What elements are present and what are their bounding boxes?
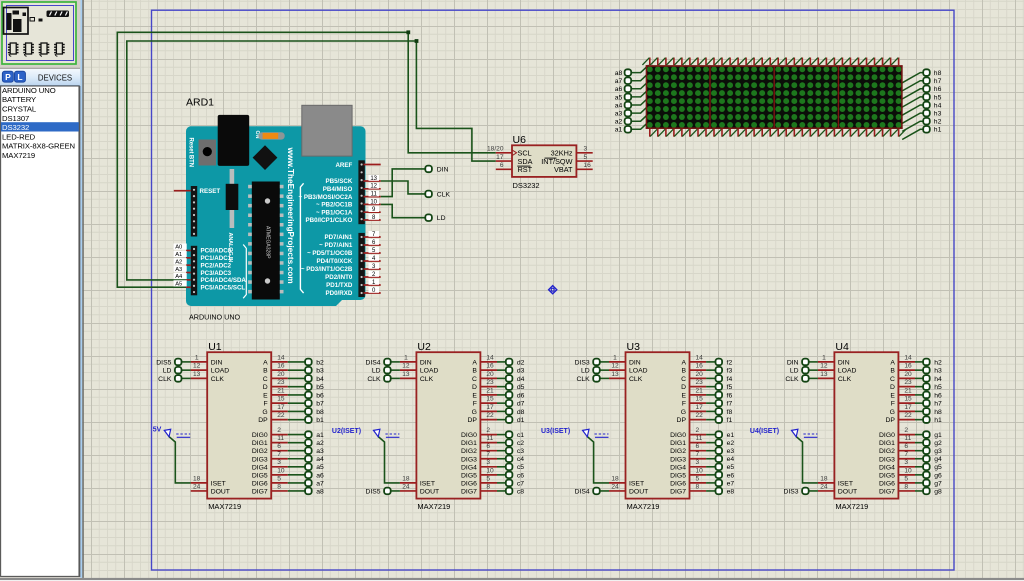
svg-text:h8: h8 [934, 70, 942, 77]
svg-text:e1: e1 [727, 432, 735, 439]
svg-text:7: 7 [277, 451, 281, 458]
svg-text:DIG2: DIG2 [879, 448, 895, 455]
svg-text:MAX7219: MAX7219 [417, 502, 450, 511]
svg-text:DIS3: DIS3 [783, 488, 798, 495]
svg-text:DIG6: DIG6 [879, 480, 895, 487]
svg-text:h6: h6 [934, 392, 942, 399]
svg-text:b4: b4 [316, 376, 324, 383]
svg-text:a2: a2 [615, 119, 623, 126]
svg-text:11: 11 [486, 435, 493, 442]
svg-text:5: 5 [277, 475, 281, 482]
svg-text:b5: b5 [316, 384, 324, 391]
svg-text:23: 23 [696, 379, 704, 386]
svg-text:23: 23 [904, 379, 912, 386]
svg-text:LD: LD [163, 368, 172, 375]
svg-text:DIG6: DIG6 [670, 480, 686, 487]
svg-text:ARDUINO UNO: ARDUINO UNO [2, 86, 56, 95]
svg-text:D: D [472, 384, 477, 391]
svg-text:11: 11 [904, 435, 911, 442]
svg-text:DIS5: DIS5 [365, 488, 380, 495]
svg-text:MAX7219: MAX7219 [2, 151, 35, 160]
svg-text:c2: c2 [517, 440, 524, 447]
svg-text:16: 16 [904, 363, 912, 370]
svg-text:22: 22 [277, 412, 285, 419]
svg-text:a1: a1 [316, 432, 324, 439]
svg-text:b1: b1 [316, 417, 324, 424]
svg-text:10: 10 [370, 199, 377, 205]
svg-text:8: 8 [696, 483, 700, 490]
svg-text:f1: f1 [727, 417, 733, 424]
svg-text:LD: LD [437, 215, 446, 222]
svg-text:h8: h8 [934, 409, 942, 416]
svg-text:17: 17 [486, 404, 494, 411]
svg-text:e3: e3 [727, 448, 735, 455]
svg-text:f4: f4 [727, 376, 733, 383]
svg-text:DEVICES: DEVICES [38, 74, 72, 83]
svg-text:2: 2 [696, 427, 700, 434]
svg-text:DIG6: DIG6 [252, 480, 268, 487]
svg-text:h5: h5 [934, 384, 942, 391]
svg-text:E: E [263, 392, 268, 399]
svg-text:DIG1: DIG1 [461, 440, 477, 447]
svg-text:DIS3: DIS3 [575, 359, 590, 366]
svg-text:15: 15 [277, 396, 285, 403]
svg-text:h1: h1 [934, 127, 942, 134]
svg-text:A5: A5 [175, 281, 182, 287]
svg-text:3: 3 [696, 459, 700, 466]
svg-text:b8: b8 [316, 409, 324, 416]
svg-text:a6: a6 [316, 472, 324, 479]
svg-text:MAX7219: MAX7219 [627, 502, 660, 511]
svg-text:DIG2: DIG2 [252, 448, 268, 455]
svg-text:h4: h4 [934, 102, 942, 109]
svg-text:6: 6 [500, 162, 504, 169]
svg-text:7: 7 [696, 451, 700, 458]
svg-text:a3: a3 [316, 448, 324, 455]
svg-text:DIG3: DIG3 [461, 456, 477, 463]
svg-text:20: 20 [486, 371, 494, 378]
svg-text:d3: d3 [517, 368, 525, 375]
svg-text:PD0/RXD: PD0/RXD [325, 290, 352, 297]
svg-text:16: 16 [277, 363, 285, 370]
svg-text:h3: h3 [934, 368, 942, 375]
svg-text:d7: d7 [517, 401, 525, 408]
svg-text:C: C [472, 376, 477, 383]
svg-text:DIG7: DIG7 [670, 488, 686, 495]
svg-text:17: 17 [496, 154, 504, 161]
svg-text:LOAD: LOAD [629, 368, 648, 375]
svg-text:A0: A0 [175, 245, 182, 251]
svg-text:e7: e7 [727, 480, 735, 487]
svg-text:DS1307: DS1307 [2, 114, 29, 123]
svg-text:a4: a4 [316, 456, 324, 463]
svg-text:2: 2 [486, 427, 490, 434]
svg-text:DIN: DIN [211, 359, 223, 366]
svg-text:f5: f5 [727, 384, 733, 391]
svg-text:18: 18 [820, 475, 828, 482]
svg-text:16: 16 [486, 363, 494, 370]
svg-text:BATTERY: BATTERY [2, 95, 36, 104]
svg-text:DIG0: DIG0 [461, 432, 477, 439]
svg-text:PC4/ADC4/SDA: PC4/ADC4/SDA [201, 277, 247, 284]
svg-text:13: 13 [402, 371, 410, 378]
svg-text:21: 21 [904, 387, 912, 394]
svg-text:U3(ISET): U3(ISET) [541, 428, 570, 435]
svg-text:18: 18 [611, 475, 619, 482]
svg-text:DIG0: DIG0 [670, 432, 686, 439]
svg-text:20: 20 [904, 371, 912, 378]
svg-text:DIG4: DIG4 [252, 464, 268, 471]
svg-text:6: 6 [486, 443, 490, 450]
svg-text:7: 7 [486, 451, 490, 458]
svg-text:f2: f2 [727, 359, 733, 366]
svg-text:Reset BTN: Reset BTN [187, 138, 193, 167]
svg-text:12: 12 [370, 184, 377, 190]
svg-text:c3: c3 [517, 448, 524, 455]
svg-text:DP: DP [885, 417, 895, 424]
svg-text:PB0/ICP1/CLKO: PB0/ICP1/CLKO [306, 217, 353, 224]
svg-text:g6: g6 [934, 472, 942, 479]
svg-text:b6: b6 [316, 392, 324, 399]
svg-text:15: 15 [696, 396, 704, 403]
svg-text:14: 14 [904, 354, 912, 361]
svg-text:a3: a3 [615, 111, 623, 118]
svg-text:1: 1 [195, 354, 199, 361]
svg-text:b2: b2 [316, 359, 324, 366]
svg-text:6: 6 [277, 443, 281, 450]
svg-text:7: 7 [904, 451, 908, 458]
svg-text:5: 5 [486, 475, 490, 482]
svg-text:d1: d1 [517, 417, 525, 424]
svg-text:13: 13 [820, 371, 828, 378]
svg-text:DIG3: DIG3 [252, 456, 268, 463]
svg-text:c6: c6 [517, 472, 524, 479]
svg-text:LOAD: LOAD [420, 368, 439, 375]
svg-text:8: 8 [277, 483, 281, 490]
svg-text:E: E [681, 392, 686, 399]
svg-text:ISET: ISET [211, 480, 226, 487]
svg-text:11: 11 [371, 192, 378, 198]
svg-text:LED-RED: LED-RED [2, 132, 36, 141]
svg-text:e8: e8 [727, 488, 735, 495]
svg-text:DIG5: DIG5 [879, 472, 895, 479]
svg-text:DIG6: DIG6 [461, 480, 477, 487]
svg-text:DIG2: DIG2 [461, 448, 477, 455]
svg-text:g3: g3 [934, 448, 942, 455]
svg-text:22: 22 [696, 412, 704, 419]
svg-text:23: 23 [486, 379, 494, 386]
svg-text:PD4/T0/XCK: PD4/T0/XCK [317, 258, 353, 265]
svg-text:DIG1: DIG1 [879, 440, 895, 447]
svg-text:U6: U6 [513, 134, 527, 146]
svg-text:g4: g4 [934, 456, 942, 463]
svg-text:5: 5 [584, 154, 588, 161]
svg-text:1: 1 [822, 354, 826, 361]
svg-text:a2: a2 [316, 440, 324, 447]
svg-text:12: 12 [611, 363, 619, 370]
svg-text:12: 12 [402, 363, 410, 370]
svg-text:d8: d8 [517, 409, 525, 416]
svg-text:A2: A2 [175, 259, 182, 265]
svg-text:DP: DP [467, 417, 477, 424]
svg-text:6: 6 [696, 443, 700, 450]
svg-text:DIN: DIN [437, 166, 449, 173]
svg-text:a5: a5 [615, 94, 623, 101]
svg-text:24: 24 [193, 483, 201, 490]
svg-text:~ PB2/OC1B: ~ PB2/OC1B [316, 202, 353, 209]
svg-text:1: 1 [613, 354, 617, 361]
svg-text:h3: h3 [934, 111, 942, 118]
svg-text:2: 2 [277, 427, 281, 434]
svg-text:PC3/ADC3: PC3/ADC3 [201, 270, 232, 277]
svg-text:h4: h4 [934, 376, 942, 383]
svg-text:CLK: CLK [785, 376, 799, 383]
svg-text:U2: U2 [417, 341, 431, 353]
svg-text:5: 5 [696, 475, 700, 482]
svg-text:MATRIX-8X8-GREEN: MATRIX-8X8-GREEN [2, 142, 75, 151]
svg-text:PD7/AIN1: PD7/AIN1 [324, 234, 352, 241]
svg-text:U1: U1 [208, 341, 222, 353]
svg-text:~ PD5/T1/OC0B: ~ PD5/T1/OC0B [307, 250, 353, 257]
svg-text:5: 5 [904, 475, 908, 482]
svg-text:E: E [472, 392, 477, 399]
svg-text:b3: b3 [316, 368, 324, 375]
svg-text:15: 15 [486, 396, 494, 403]
svg-text:CRYSTAL: CRYSTAL [2, 105, 37, 114]
svg-text:2: 2 [904, 427, 908, 434]
svg-text:15: 15 [904, 396, 912, 403]
svg-text:RESET: RESET [200, 188, 221, 195]
svg-text:a6: a6 [615, 86, 623, 93]
svg-text:14: 14 [277, 354, 285, 361]
svg-text:h2: h2 [934, 359, 942, 366]
svg-text:F: F [682, 401, 686, 408]
svg-text:e6: e6 [727, 472, 735, 479]
svg-text:21: 21 [277, 387, 285, 394]
svg-text:DOUT: DOUT [629, 488, 648, 495]
svg-text:DIS5: DIS5 [156, 359, 171, 366]
svg-text:~ PB1/OC1A: ~ PB1/OC1A [316, 209, 353, 216]
svg-text:d4: d4 [517, 376, 525, 383]
svg-text:MAX7219: MAX7219 [208, 502, 241, 511]
svg-text:18/20: 18/20 [487, 146, 504, 153]
svg-text:10: 10 [904, 467, 912, 474]
svg-text:C: C [681, 376, 686, 383]
svg-text:h1: h1 [934, 417, 942, 424]
svg-text:PC0/ADC0: PC0/ADC0 [201, 248, 232, 255]
svg-text:DOUT: DOUT [838, 488, 857, 495]
svg-text:d6: d6 [517, 392, 525, 399]
svg-text:ARD1: ARD1 [186, 97, 214, 109]
svg-text:D: D [890, 384, 895, 391]
svg-text:ISET: ISET [420, 480, 435, 487]
svg-text:g2: g2 [934, 440, 942, 447]
svg-text:g5: g5 [934, 464, 942, 471]
svg-text:B: B [472, 368, 477, 375]
svg-text:DIG5: DIG5 [461, 472, 477, 479]
svg-text:D: D [681, 384, 686, 391]
svg-text:D: D [263, 384, 268, 391]
svg-text:CLK: CLK [437, 191, 451, 198]
svg-text:f8: f8 [727, 409, 733, 416]
svg-text:DIG4: DIG4 [461, 464, 477, 471]
svg-text:DOUT: DOUT [420, 488, 439, 495]
svg-text:g8: g8 [934, 488, 942, 495]
svg-text:DIG4: DIG4 [670, 464, 686, 471]
svg-text:e5: e5 [727, 464, 735, 471]
svg-text:g7: g7 [934, 480, 942, 487]
svg-text:DS3232: DS3232 [2, 123, 29, 132]
svg-text:b7: b7 [316, 401, 324, 408]
svg-text:DIG7: DIG7 [461, 488, 477, 495]
svg-text:DIG1: DIG1 [252, 440, 268, 447]
svg-text:14: 14 [696, 354, 704, 361]
svg-text:DIN: DIN [838, 359, 850, 366]
svg-text:www.TheEngineeringProjects.com: www.TheEngineeringProjects.com [286, 147, 296, 284]
svg-text:e2: e2 [727, 440, 735, 447]
svg-text:B: B [890, 368, 895, 375]
svg-text:17: 17 [696, 404, 704, 411]
svg-text:LOAD: LOAD [838, 368, 857, 375]
svg-text:DIN: DIN [420, 359, 432, 366]
svg-text:14: 14 [486, 354, 494, 361]
svg-text:h6: h6 [934, 86, 942, 93]
svg-text:h7: h7 [934, 401, 942, 408]
svg-text:3: 3 [486, 459, 490, 466]
svg-text:CLK: CLK [838, 376, 852, 383]
svg-text:~ PD3/INT1/OC2B: ~ PD3/INT1/OC2B [301, 266, 353, 273]
svg-text:PB4/MISO: PB4/MISO [323, 186, 353, 193]
svg-text:17: 17 [277, 404, 285, 411]
svg-text:c1: c1 [517, 432, 524, 439]
svg-text:10: 10 [277, 467, 285, 474]
svg-text:1: 1 [404, 354, 408, 361]
svg-text:a7: a7 [615, 78, 623, 85]
svg-text:A4: A4 [175, 274, 183, 280]
svg-text:DIG0: DIG0 [252, 432, 268, 439]
svg-text:LD: LD [372, 368, 381, 375]
svg-text:G: G [681, 409, 686, 416]
svg-text:16: 16 [696, 363, 704, 370]
svg-text:c5: c5 [517, 464, 524, 471]
svg-text:DIG5: DIG5 [670, 472, 686, 479]
svg-text:AREF: AREF [335, 162, 352, 169]
svg-text:18: 18 [402, 475, 410, 482]
svg-text:VBAT: VBAT [554, 165, 573, 174]
svg-text:21: 21 [696, 387, 704, 394]
svg-text:16: 16 [584, 162, 592, 169]
svg-text:c4: c4 [517, 456, 524, 463]
svg-text:a8: a8 [316, 488, 324, 495]
svg-text:12: 12 [193, 363, 201, 370]
svg-text:5V: 5V [153, 427, 162, 434]
svg-text:DIG2: DIG2 [670, 448, 686, 455]
svg-text:ISET: ISET [629, 480, 644, 487]
svg-text:h2: h2 [934, 119, 942, 126]
svg-text:21: 21 [486, 387, 494, 394]
svg-text:12: 12 [820, 363, 828, 370]
svg-text:DS3232: DS3232 [513, 181, 540, 190]
svg-text:U4(ISET): U4(ISET) [750, 428, 779, 435]
svg-text:DIG5: DIG5 [252, 472, 268, 479]
svg-text:~ PB3/MOSI/OC2A: ~ PB3/MOSI/OC2A [298, 194, 352, 201]
svg-text:CLK: CLK [576, 376, 590, 383]
svg-text:c7: c7 [517, 480, 524, 487]
svg-text:a7: a7 [316, 480, 324, 487]
svg-text:d2: d2 [517, 359, 525, 366]
svg-text:8: 8 [904, 483, 908, 490]
svg-text:24: 24 [820, 483, 828, 490]
svg-text:PC5/ADC5/SCL: PC5/ADC5/SCL [201, 284, 246, 291]
svg-text:B: B [681, 368, 686, 375]
svg-text:18: 18 [193, 475, 201, 482]
svg-text:f3: f3 [727, 368, 733, 375]
svg-text:P: P [5, 72, 11, 82]
svg-text:U3: U3 [627, 341, 641, 353]
svg-text:PC2/ADC2: PC2/ADC2 [201, 262, 232, 269]
svg-text:3: 3 [904, 459, 908, 466]
svg-text:6: 6 [904, 443, 908, 450]
svg-text:e4: e4 [727, 456, 735, 463]
svg-text:20: 20 [277, 371, 285, 378]
svg-text:a4: a4 [615, 102, 623, 109]
svg-text:CLK: CLK [158, 376, 172, 383]
svg-text:13: 13 [370, 176, 377, 182]
svg-text:f7: f7 [727, 401, 733, 408]
svg-text:PD1/TXD: PD1/TXD [326, 282, 353, 289]
svg-text:DP: DP [258, 417, 268, 424]
svg-text:DIG0: DIG0 [879, 432, 895, 439]
svg-text:DIG4: DIG4 [879, 464, 895, 471]
svg-text:10: 10 [696, 467, 704, 474]
svg-text:DIN: DIN [629, 359, 641, 366]
svg-text:17: 17 [904, 404, 912, 411]
svg-text:24: 24 [611, 483, 619, 490]
svg-text:DIS4: DIS4 [575, 488, 590, 495]
svg-text:DIG7: DIG7 [252, 488, 268, 495]
svg-text:F: F [891, 401, 895, 408]
svg-text:F: F [264, 401, 268, 408]
svg-text:d5: d5 [517, 384, 525, 391]
svg-text:U4: U4 [835, 341, 849, 353]
svg-text:11: 11 [277, 435, 284, 442]
svg-text:PD2/INT0: PD2/INT0 [325, 274, 353, 281]
svg-text:G: G [262, 409, 267, 416]
svg-text:a1: a1 [615, 127, 623, 134]
svg-text:F: F [473, 401, 477, 408]
svg-text:13: 13 [193, 371, 201, 378]
svg-text:8: 8 [486, 483, 490, 490]
svg-text:A1: A1 [175, 252, 182, 258]
svg-text:f6: f6 [727, 392, 733, 399]
svg-text:g1: g1 [934, 432, 942, 439]
svg-text:CLK: CLK [629, 376, 643, 383]
svg-text:22: 22 [904, 412, 912, 419]
svg-text:DOUT: DOUT [211, 488, 230, 495]
svg-text:23: 23 [277, 379, 285, 386]
svg-text:A: A [890, 359, 895, 366]
svg-text:DIG3: DIG3 [670, 456, 686, 463]
svg-text:LD: LD [581, 368, 590, 375]
svg-text:10: 10 [486, 467, 494, 474]
svg-text:G: G [890, 409, 895, 416]
svg-text:11: 11 [696, 435, 703, 442]
svg-text:CLK: CLK [367, 376, 381, 383]
svg-text:13: 13 [611, 371, 619, 378]
svg-text:h5: h5 [934, 94, 942, 101]
svg-text:CLK: CLK [420, 376, 434, 383]
svg-text:LD: LD [790, 368, 799, 375]
